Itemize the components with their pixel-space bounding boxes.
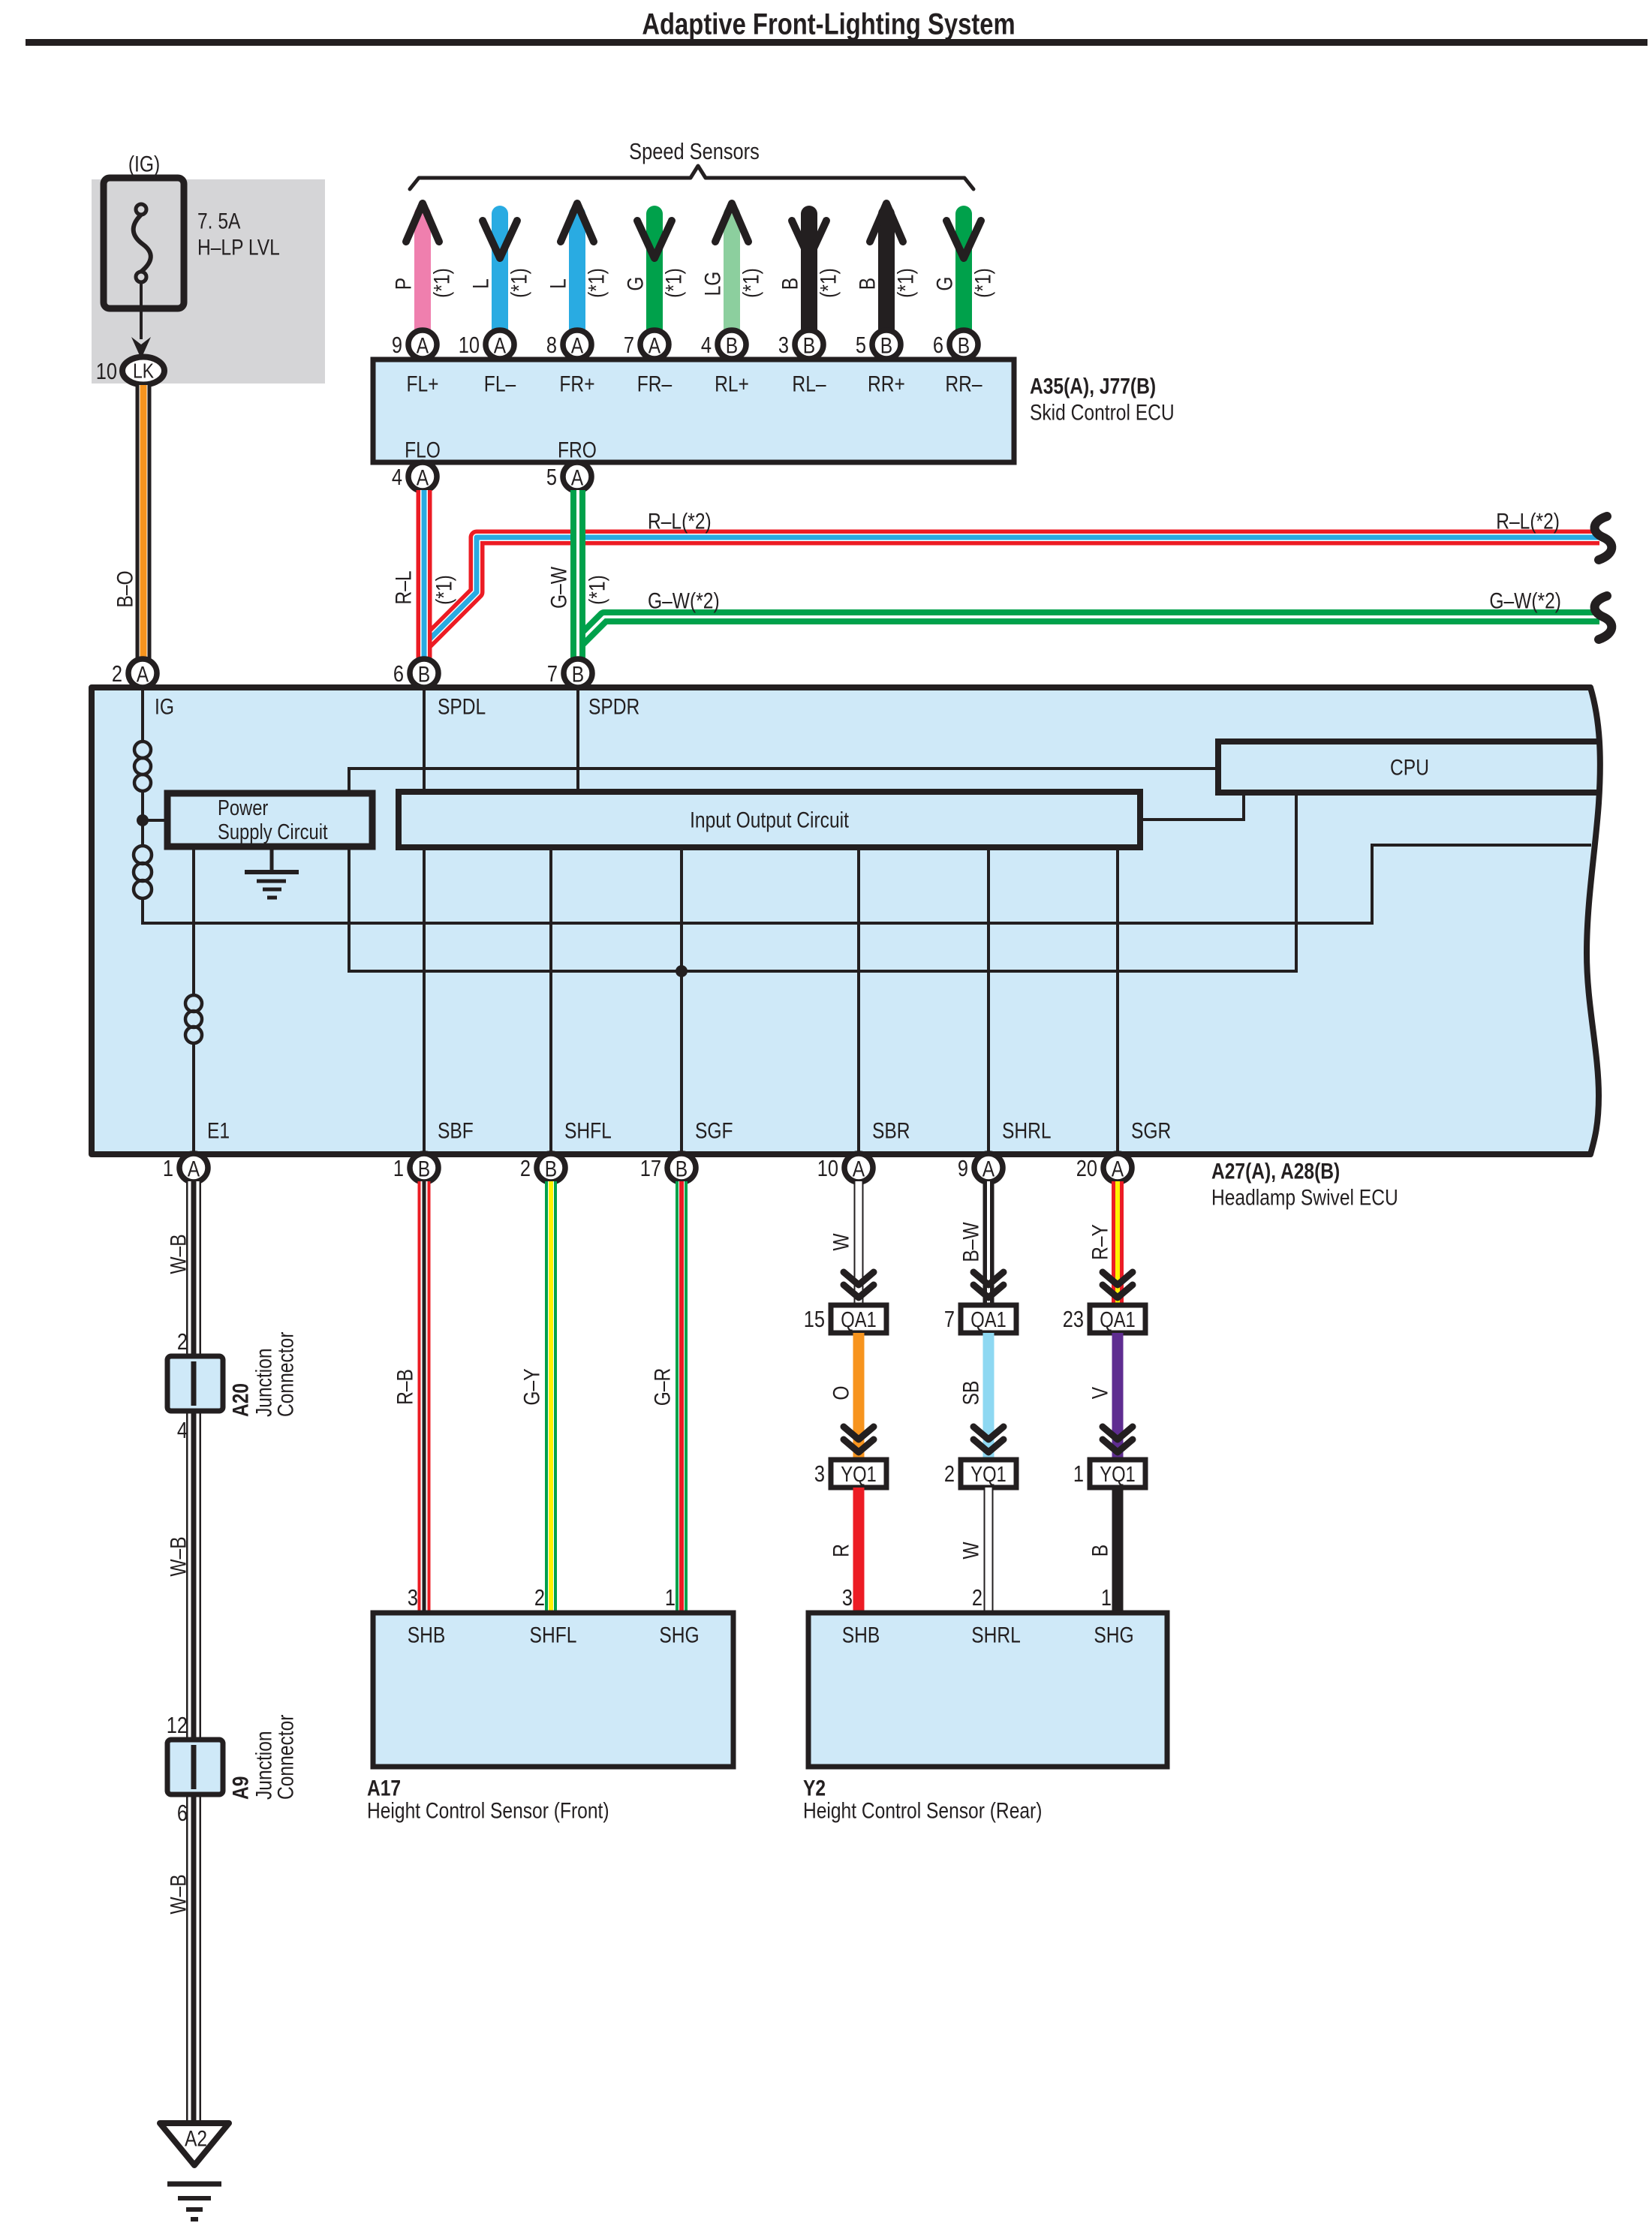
svg-text:YQ1: YQ1 — [970, 1462, 1007, 1487]
wire V QA1 to YQ1 — [1112, 1333, 1124, 1460]
svg-text:IG: IG — [155, 693, 174, 719]
label Junction Connector A9 — [251, 1715, 298, 1800]
svg-text:(*1): (*1) — [660, 268, 686, 298]
svg-text:1: 1 — [665, 1585, 676, 1611]
pin 17B SGF of swivel ECU — [640, 1154, 696, 1182]
svg-text:A: A — [648, 332, 661, 358]
svg-text:Connector: Connector — [272, 1332, 298, 1417]
pin 4B of skid control ECU — [701, 330, 746, 359]
speed sensor wire LG at pin 4B (from skid ECU) — [715, 203, 748, 331]
wire B–W from swivel ECU pin — [983, 1181, 995, 1305]
svg-text:3: 3 — [842, 1585, 853, 1611]
wire B-O from LK to pin 2A — [136, 385, 152, 660]
svg-text:B: B — [545, 1156, 557, 1181]
svg-text:23: 23 — [1063, 1307, 1084, 1333]
svg-text:SHFL: SHFL — [564, 1118, 612, 1143]
svg-text:10: 10 — [817, 1156, 838, 1182]
svg-text:CPU: CPU — [1390, 754, 1429, 780]
svg-text:A2: A2 — [185, 2125, 207, 2151]
svg-text:SHFL: SHFL — [530, 1622, 577, 1647]
svg-text:2: 2 — [972, 1585, 982, 1611]
svg-text:3: 3 — [814, 1461, 825, 1488]
svg-text:(*1): (*1) — [970, 268, 995, 298]
pin 3B of skid control ECU — [778, 330, 823, 359]
svg-text:(*1): (*1) — [583, 268, 609, 298]
svg-text:(*1): (*1) — [506, 268, 531, 298]
speed sensor wire L at pin 8A (from skid ECU) — [561, 203, 594, 331]
svg-text:SPDL: SPDL — [438, 693, 486, 719]
wire PSC bottom rail to CPU riser — [349, 793, 1296, 971]
svg-text:G–R: G–R — [649, 1368, 675, 1406]
svg-text:(*1): (*1) — [892, 268, 918, 298]
speed sensor wire L at pin 10A (to skid ECU) — [483, 214, 517, 331]
skid control ECU A35(A) J77(B) box — [373, 359, 1014, 462]
pin 7A of skid control ECU — [624, 330, 669, 359]
height control sensor front A17 box — [373, 1613, 733, 1767]
A17 designator label — [367, 1775, 609, 1823]
svg-text:LG: LG — [700, 272, 725, 296]
svg-text:7: 7 — [547, 661, 558, 687]
break symbol on G-W(*2) — [1595, 596, 1612, 639]
svg-text:B: B — [880, 332, 892, 358]
svg-text:A: A — [417, 465, 429, 490]
inductor L1 on IG line — [134, 741, 151, 791]
svg-text:H–LP LVL: H–LP LVL — [197, 234, 280, 260]
svg-text:V: V — [1087, 1386, 1112, 1399]
wire SB QA1 to YQ1 — [983, 1333, 995, 1460]
svg-text:1: 1 — [163, 1156, 173, 1182]
connector marker into YQ1 — [1103, 1427, 1133, 1452]
svg-text:Adaptive Front-Lighting System: Adaptive Front-Lighting System — [642, 8, 1015, 41]
speed sensor wire P at pin 9A (from skid ECU) — [406, 203, 439, 331]
wire E1 internal upper — [192, 847, 195, 995]
connector 10 LK — [96, 357, 164, 385]
svg-text:O: O — [828, 1385, 853, 1400]
connector 2 YQ1 — [944, 1460, 1016, 1488]
wire W from swivel ECU pin — [854, 1181, 864, 1305]
arrowhead into LK — [131, 337, 151, 359]
svg-text:A: A — [571, 465, 584, 490]
pin 4A FLO of skid ECU — [392, 462, 437, 491]
svg-text:B: B — [958, 332, 970, 358]
svg-text:YQ1: YQ1 — [841, 1462, 877, 1487]
svg-text:7: 7 — [944, 1307, 955, 1333]
input output circuit box — [399, 792, 1140, 847]
svg-text:B: B — [676, 1156, 688, 1181]
connector 1 YQ1 — [1073, 1460, 1145, 1488]
svg-text:2: 2 — [944, 1461, 955, 1488]
svg-text:6: 6 — [393, 661, 404, 687]
svg-text:B: B — [572, 661, 584, 687]
connector marker into QA1 — [1103, 1272, 1133, 1298]
wire E1 internal lower — [192, 1043, 195, 1151]
svg-text:RL–: RL– — [792, 371, 826, 396]
svg-text:Speed Sensors: Speed Sensors — [629, 139, 760, 165]
svg-text:L: L — [545, 278, 570, 289]
svg-text:A: A — [982, 1156, 995, 1181]
wire R-B from pin 1B to A17 SHB — [418, 1181, 431, 1613]
svg-text:FL+: FL+ — [406, 371, 438, 396]
wire IOC to CPU link — [1140, 793, 1244, 820]
svg-text:RL+: RL+ — [715, 371, 749, 396]
svg-text:(*1): (*1) — [431, 575, 456, 605]
wire SHRL internal — [987, 847, 990, 1151]
wire G-R from pin 17B to A17 SHG — [676, 1181, 688, 1613]
svg-text:9: 9 — [392, 332, 402, 359]
wire bottom power rail to right exit — [143, 845, 1591, 923]
ground A2 — [160, 2123, 229, 2165]
svg-text:YQ1: YQ1 — [1100, 1462, 1136, 1487]
connector marker into QA1 — [973, 1272, 1004, 1298]
svg-text:LK: LK — [133, 360, 154, 384]
svg-text:2: 2 — [112, 661, 122, 687]
svg-text:L: L — [468, 278, 493, 289]
junction connector A20 — [167, 1356, 223, 1411]
svg-text:SHB: SHB — [842, 1622, 880, 1647]
connector marker into QA1 — [844, 1272, 874, 1298]
svg-text:8: 8 — [546, 332, 557, 359]
pin 5A FRO of skid ECU — [546, 462, 591, 491]
connector 15 QA1 — [804, 1305, 886, 1333]
swivel ECU designator label — [1211, 1158, 1398, 1210]
wire R–Y from swivel ECU pin — [1112, 1181, 1124, 1305]
node dot on SGF rail — [676, 965, 688, 977]
pin 7B SPDR of swivel ECU — [547, 659, 592, 687]
pin 10A SBR of swivel ECU — [817, 1154, 873, 1182]
svg-text:1: 1 — [393, 1156, 404, 1182]
svg-text:SHRL: SHRL — [1002, 1118, 1052, 1143]
wire G-Y from pin 2B to A17 SHFL — [545, 1181, 557, 1613]
connector marker into YQ1 — [973, 1427, 1004, 1452]
pin 20A SGR of swivel ECU — [1076, 1154, 1132, 1182]
fuse value label 7.5A H-LP LVL — [197, 208, 280, 260]
headlamp swivel ECU A27(A) A28(B) box — [92, 687, 1600, 1154]
svg-text:A: A — [1112, 1156, 1124, 1181]
pin 9A SHRL of swivel ECU — [958, 1154, 1003, 1182]
CPU box — [1218, 741, 1599, 793]
ground symbol A2 bars — [167, 2184, 221, 2219]
wire G-W(*2) branch to right edge — [579, 617, 1599, 642]
svg-text:QA1: QA1 — [841, 1307, 877, 1332]
pin 1B SBF of swivel ECU — [393, 1154, 438, 1182]
svg-text:B: B — [726, 332, 738, 358]
svg-text:2: 2 — [520, 1156, 531, 1182]
speed sensor wire G at pin 7A (to skid ECU) — [637, 214, 672, 331]
Y2 designator label — [803, 1775, 1042, 1823]
svg-text:SGF: SGF — [695, 1118, 733, 1143]
speed sensor wire G at pin 6B (to skid ECU) — [946, 214, 981, 331]
svg-text:A27(A), A28(B): A27(A), A28(B) — [1211, 1158, 1340, 1184]
connector 3 YQ1 — [814, 1460, 886, 1488]
connector 7 QA1 — [944, 1305, 1016, 1333]
svg-text:3: 3 — [408, 1585, 418, 1611]
svg-text:4: 4 — [177, 1418, 188, 1444]
svg-text:W–B: W–B — [165, 1234, 191, 1274]
svg-text:2: 2 — [177, 1329, 188, 1355]
svg-text:Height Control Sensor (Rear): Height Control Sensor (Rear) — [803, 1797, 1042, 1823]
svg-text:G: G — [622, 276, 648, 290]
svg-text:12: 12 — [167, 1713, 188, 1739]
svg-text:6: 6 — [177, 1800, 188, 1827]
svg-text:5: 5 — [546, 465, 557, 491]
svg-text:SHRL: SHRL — [971, 1622, 1021, 1647]
svg-text:R–L: R–L — [390, 570, 416, 604]
svg-text:G: G — [931, 276, 957, 290]
wire SPDL internal — [423, 690, 426, 792]
label Junction Connector A20 — [251, 1332, 298, 1417]
pin 5B of skid control ECU — [856, 330, 901, 359]
svg-text:15: 15 — [804, 1307, 825, 1333]
svg-text:G–W: G–W — [546, 567, 571, 609]
svg-text:A20: A20 — [227, 1383, 253, 1417]
svg-text:Supply Circuit: Supply Circuit — [218, 820, 328, 844]
wire SBR internal — [857, 847, 860, 1151]
fuse F1 7.5A H-LP LVL — [104, 178, 184, 308]
speed sensor wire B at pin 5B (from skid ECU) — [870, 203, 903, 331]
svg-text:B: B — [803, 332, 815, 358]
wire SGR internal — [1116, 847, 1119, 1151]
wire IG internal top — [141, 690, 144, 741]
svg-text:SPDR: SPDR — [588, 693, 639, 719]
ground symbol under power supply circuit — [245, 847, 299, 898]
svg-text:FR–: FR– — [637, 371, 673, 396]
speed sensor wire B at pin 3B (to skid ECU) — [792, 214, 826, 331]
svg-text:B–W: B–W — [958, 1222, 983, 1262]
svg-text:17: 17 — [640, 1156, 661, 1182]
svg-text:RR–: RR– — [945, 371, 982, 396]
svg-text:FR+: FR+ — [559, 371, 594, 396]
node IG junction dot — [137, 814, 149, 826]
svg-text:G–W(*2): G–W(*2) — [1489, 588, 1561, 613]
wire W YQ1 to Y2 — [984, 1488, 994, 1613]
svg-text:FL–: FL– — [484, 371, 516, 396]
connector marker into YQ1 — [844, 1427, 874, 1452]
svg-text:R–L(*2): R–L(*2) — [648, 508, 712, 534]
svg-text:6: 6 — [933, 332, 943, 359]
svg-text:QA1: QA1 — [970, 1307, 1007, 1332]
pin 6B of skid control ECU — [933, 330, 978, 359]
inductor L2 on IG line — [134, 846, 152, 898]
svg-text:W: W — [828, 1233, 853, 1250]
svg-text:B: B — [777, 278, 802, 290]
svg-text:FRO: FRO — [558, 437, 597, 462]
svg-text:R: R — [828, 1544, 853, 1557]
svg-text:(IG): (IG) — [128, 151, 160, 176]
svg-text:B: B — [854, 278, 880, 290]
height control sensor rear Y2 box — [808, 1613, 1167, 1767]
svg-text:Headlamp Swivel ECU: Headlamp Swivel ECU — [1211, 1184, 1398, 1210]
svg-text:A: A — [571, 332, 584, 358]
svg-text:R–Y: R–Y — [1087, 1224, 1112, 1260]
pin 10A of skid control ECU — [459, 330, 514, 359]
svg-text:1: 1 — [1101, 1585, 1112, 1611]
skid ECU pin labels row — [406, 371, 982, 396]
svg-text:1: 1 — [1073, 1461, 1084, 1488]
svg-text:P: P — [390, 278, 416, 290]
svg-text:7. 5A: 7. 5A — [197, 208, 241, 233]
svg-text:Skid Control ECU: Skid Control ECU — [1030, 399, 1175, 425]
svg-text:RR+: RR+ — [868, 371, 905, 396]
wire IG to junction — [141, 791, 144, 846]
title rule — [26, 39, 1647, 46]
svg-text:A9: A9 — [227, 1776, 253, 1800]
svg-text:10: 10 — [459, 332, 480, 359]
svg-text:B–O: B–O — [112, 570, 137, 607]
svg-text:7: 7 — [624, 332, 634, 359]
wire R YQ1 to Y2 — [853, 1488, 865, 1613]
wire W-B from pin 1A to ground A2 — [186, 1181, 201, 2123]
svg-text:(*1): (*1) — [429, 268, 454, 298]
svg-text:B: B — [1087, 1545, 1112, 1557]
svg-text:SBF: SBF — [438, 1118, 474, 1143]
svg-text:G–W(*2): G–W(*2) — [648, 588, 720, 613]
svg-text:R–B: R–B — [392, 1369, 417, 1405]
break symbol on R-L(*2) — [1595, 516, 1612, 560]
power supply circuit box — [167, 793, 372, 847]
svg-text:2: 2 — [534, 1585, 545, 1611]
svg-text:A: A — [494, 332, 507, 358]
wire fuse to connector LK — [140, 284, 143, 339]
pin 6B SPDL of swivel ECU — [393, 659, 438, 687]
inductor L3 on E1 line — [185, 995, 202, 1043]
svg-text:SGR: SGR — [1131, 1118, 1171, 1143]
svg-text:A: A — [853, 1156, 865, 1181]
wire SBF internal — [423, 847, 426, 1151]
pin 2B SHFL of swivel ECU — [520, 1154, 565, 1182]
svg-text:W: W — [958, 1542, 983, 1559]
svg-text:SB: SB — [958, 1381, 983, 1406]
svg-text:SBR: SBR — [872, 1118, 910, 1143]
svg-text:20: 20 — [1076, 1156, 1097, 1182]
svg-text:A: A — [417, 332, 429, 358]
speed sensors bracket — [410, 166, 973, 189]
svg-text:SHG: SHG — [659, 1622, 699, 1647]
junction connector A9 — [167, 1740, 223, 1794]
svg-text:Power: Power — [218, 796, 269, 820]
svg-text:W–B: W–B — [165, 1536, 191, 1576]
svg-text:(*1): (*1) — [815, 268, 841, 298]
svg-text:B: B — [418, 1156, 430, 1181]
svg-text:W–B: W–B — [165, 1874, 191, 1914]
svg-text:(*1): (*1) — [584, 575, 609, 605]
svg-text:R–L(*2): R–L(*2) — [1496, 508, 1560, 534]
svg-text:3: 3 — [778, 332, 789, 359]
fuse block background — [92, 179, 325, 384]
wire L2 to bottom rail — [141, 898, 144, 925]
svg-text:A17: A17 — [367, 1775, 401, 1800]
svg-text:G–Y: G–Y — [519, 1368, 544, 1405]
wire R-L(*2) branch to right edge — [425, 537, 1599, 644]
wire R-L from pin 4A to pin 6B — [417, 490, 432, 660]
svg-text:Connector: Connector — [272, 1715, 298, 1800]
svg-text:A: A — [188, 1156, 200, 1181]
svg-text:9: 9 — [958, 1156, 968, 1182]
skid ECU designator label — [1030, 373, 1175, 425]
svg-text:4: 4 — [392, 465, 402, 491]
wire SHFL internal — [549, 847, 552, 1151]
svg-text:QA1: QA1 — [1100, 1307, 1136, 1332]
svg-text:Input Output Circuit: Input Output Circuit — [690, 807, 849, 832]
pin 2A IG of swivel ECU — [112, 659, 157, 687]
svg-text:E1: E1 — [207, 1118, 230, 1143]
wire junction to power supply circuit — [143, 819, 168, 822]
connector 23 QA1 — [1063, 1305, 1145, 1333]
wire PSC top to CPU thin line — [349, 769, 1218, 794]
power supply circuit label — [218, 796, 328, 844]
svg-text:Y2: Y2 — [803, 1775, 826, 1800]
svg-text:(*1): (*1) — [738, 268, 763, 298]
svg-text:A: A — [137, 661, 149, 687]
pin 1A E1 of swivel ECU — [163, 1154, 208, 1182]
pin 9A of skid control ECU — [392, 330, 437, 359]
svg-text:10: 10 — [96, 359, 117, 385]
svg-text:SHB: SHB — [408, 1622, 446, 1647]
svg-text:5: 5 — [856, 332, 866, 359]
wire O QA1 to YQ1 — [853, 1333, 865, 1460]
svg-text:SHG: SHG — [1094, 1622, 1133, 1647]
svg-text:4: 4 — [701, 332, 712, 359]
wire SGF internal — [680, 847, 683, 1151]
svg-text:B: B — [418, 661, 430, 687]
wire SPDR internal — [576, 690, 579, 792]
pin 8A of skid control ECU — [546, 330, 591, 359]
svg-text:A35(A), J77(B): A35(A), J77(B) — [1030, 373, 1156, 399]
svg-text:Height Control Sensor (Front): Height Control Sensor (Front) — [367, 1797, 609, 1823]
wire B YQ1 to Y2 — [1112, 1488, 1124, 1613]
wire G-W from pin 5A to pin 7B — [570, 490, 585, 660]
svg-text:FLO: FLO — [405, 437, 441, 462]
